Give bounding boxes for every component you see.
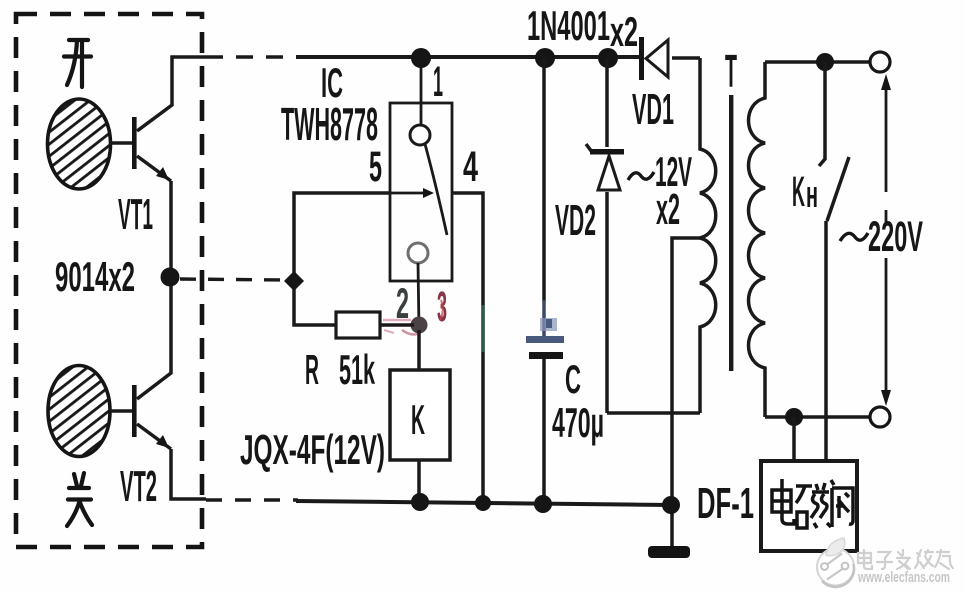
relay contact KH — [819, 62, 849, 461]
svg-text:220V: 220V — [868, 213, 923, 261]
node: primary top / KH junction — [816, 53, 834, 71]
wire: resistor to junction — [380, 323, 414, 327]
artifact: blue watermark remnant above capacitor — [540, 318, 557, 331]
node: top rail / VD2 junction — [598, 48, 618, 68]
svg-text:VD1: VD1 — [632, 85, 674, 134]
IC internal contact (bottom) — [408, 243, 428, 263]
watermark logo — [817, 538, 854, 587]
svg-text:н: н — [806, 174, 818, 216]
IC internal contact (top) — [410, 125, 430, 145]
touch sensor module enclosure (dashed box) — [16, 14, 202, 547]
svg-text:1: 1 — [433, 58, 443, 106]
wire: dashed base bus from emitter junction — [180, 279, 290, 280]
wire: dashed top rail segment leaving enclosure — [206, 55, 298, 58]
wire: primary top to AC terminal — [765, 60, 870, 64]
svg-text:4: 4 — [463, 143, 478, 191]
pin 4 lead and wire down to 0V rail — [452, 193, 483, 502]
wire: valve to bottom AC wire — [792, 417, 796, 461]
svg-text:x2: x2 — [656, 185, 680, 234]
svg-text:VT1: VT1 — [118, 190, 153, 239]
wire: top rail to capacitor — [542, 58, 546, 302]
label 开 (ON) drawn glyph — [64, 40, 91, 87]
pin 1 lead — [420, 60, 423, 125]
watermark 电子发烧友 drawn glyphs — [858, 550, 953, 569]
AC source span line with arrows — [881, 74, 891, 406]
artifact: red scribbles near pins 2/3 — [440, 300, 443, 320]
node: base bus / pin5 junction (diamond) — [284, 271, 304, 291]
label 关 (OFF) drawn glyph — [67, 473, 92, 526]
wire: capacitor to 0V rail — [542, 359, 546, 504]
wire: dashed bottom rail segment leaving enclosure — [206, 498, 298, 501]
svg-text:K: K — [411, 396, 425, 443]
svg-text:T: T — [725, 45, 737, 97]
touch plate for VT2 (hatched disc) — [48, 366, 110, 457]
svg-text:VD2: VD2 — [555, 196, 596, 245]
resistor R body — [336, 312, 380, 338]
transformer T: secondary winding — [700, 58, 716, 413]
capacitor C plates (top plate blue-tinted artifact) — [526, 336, 564, 343]
svg-text:www.elecfans.com: www.elecfans.com — [857, 569, 950, 586]
node: top rail / capacitor junction — [535, 48, 555, 68]
IC TWH8778 outline — [390, 103, 452, 281]
label 电磁阀 drawn glyphs — [772, 479, 853, 528]
svg-text:TWH8778: TWH8778 — [281, 98, 378, 150]
svg-text:JQX-4F(12V): JQX-4F(12V) — [240, 426, 385, 473]
svg-text:VT2: VT2 — [120, 462, 157, 511]
node: VT1 emitter / VT2 collector junction — [161, 268, 180, 287]
node: pin2 / R / relay junction — [411, 317, 428, 334]
svg-text:5: 5 — [369, 143, 382, 191]
transistor VT1 — [110, 57, 206, 278]
pin 2 lead — [418, 263, 419, 330]
wire: relay coil to 0V rail — [417, 460, 421, 502]
label ~220V — [840, 233, 868, 241]
transformer T: centre tap to ground rail — [672, 238, 700, 546]
node: pin4 wire / 0V rail junction — [475, 495, 491, 511]
transformer T: primary winding — [749, 62, 766, 417]
svg-text:DF-1: DF-1 — [697, 479, 754, 528]
wire: VD2 to top rail — [605, 58, 609, 147]
node: top rail / pin1 junction — [411, 48, 431, 68]
touch plate for VT1 (hatched disc) — [48, 99, 111, 189]
node: relay / 0V rail junction — [411, 493, 429, 511]
diode VD2 — [586, 144, 624, 190]
wire: primary bottom to AC terminal — [765, 415, 870, 419]
relay coil K body — [390, 370, 450, 460]
IC internal input arrow — [391, 192, 426, 195]
label ~12V — [628, 172, 654, 180]
transistor VT2 — [109, 278, 206, 499]
svg-text:K: K — [792, 168, 805, 216]
wire: VD2 anode down — [605, 192, 609, 413]
transformer T: core — [729, 95, 733, 371]
node: bottom AC wire / valve junction — [785, 408, 803, 426]
wire: 0V bottom rail (solid) — [296, 501, 672, 505]
svg-text:51k: 51k — [339, 346, 375, 393]
svg-text:9014x2: 9014x2 — [55, 253, 135, 300]
wire: +12V top rail (solid) — [296, 55, 640, 59]
pin 5 lead and wire to base bus / resistor — [294, 193, 390, 325]
svg-text:R: R — [305, 346, 319, 393]
svg-text:x2: x2 — [610, 8, 638, 55]
svg-text:470µ: 470µ — [552, 399, 604, 446]
svg-text:1N4001: 1N4001 — [527, 2, 610, 49]
node: capacitor / 0V rail junction — [534, 495, 552, 513]
AC source ~220V terminal (top) — [870, 52, 890, 72]
wire: secondary bottom to VD2 — [607, 411, 700, 415]
diode VD1 — [639, 37, 668, 80]
wire: junction to relay coil — [417, 330, 421, 371]
solenoid valve box — [761, 461, 857, 551]
IC internal switch blade — [425, 144, 447, 235]
AC source ~220V terminal (bottom) — [870, 407, 890, 427]
svg-text:C: C — [565, 358, 581, 402]
wire: VD1 anode to transformer secondary top — [672, 56, 700, 60]
ground — [648, 546, 690, 558]
node: 0V rail / centre tap junction — [662, 496, 680, 514]
artifact: green tint on pin4 wire — [481, 305, 484, 352]
